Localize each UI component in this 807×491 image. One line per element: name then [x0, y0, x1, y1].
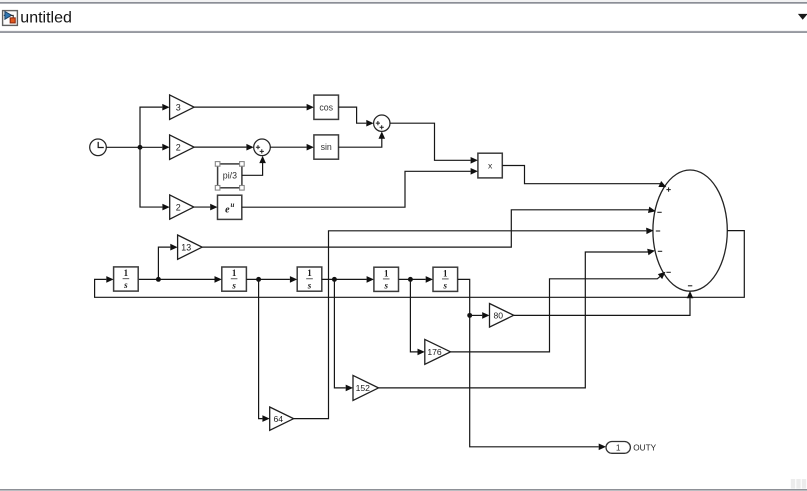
- svg-text:80: 80: [494, 311, 504, 321]
- wire cos to sum 2: [339, 107, 374, 126]
- wire gain 13 to ellipse port 2: [202, 207, 656, 248]
- model icon: [3, 11, 18, 26]
- gain block 176: [425, 339, 451, 364]
- svg-text:1: 1: [616, 443, 621, 453]
- tab bar background: [0, 0, 807, 33]
- wire branch to gain 80: [470, 312, 490, 319]
- wire integrator 5 to outport OUTY: [458, 279, 606, 450]
- wire gain 80 to ellipse bottom port: [514, 291, 694, 316]
- gain block 3: [170, 95, 195, 120]
- outport block 1: [606, 442, 630, 454]
- wire branch integrator 2 to gain 64: [259, 279, 270, 422]
- status bar bottom line: [0, 489, 807, 491]
- wire sin to sum 2 bottom: [339, 131, 386, 147]
- svg-text:cos: cos: [319, 102, 333, 112]
- svg-text:s: s: [123, 280, 128, 290]
- wire integrator 1 to integrator 2: [139, 276, 222, 283]
- svg-text:2: 2: [176, 142, 181, 152]
- svg-text:176: 176: [427, 347, 442, 357]
- wire branch to gain 2 middle: [140, 144, 170, 151]
- large sum block (ellipse): [653, 170, 727, 291]
- outport label OUTY: [633, 443, 656, 452]
- wire sum 1 to sin: [270, 144, 314, 151]
- sum block 1: [254, 139, 271, 156]
- svg-text:s: s: [307, 280, 312, 290]
- svg-text:OUTY: OUTY: [633, 443, 656, 452]
- wire branch integrator 4 to gain 176: [410, 279, 424, 355]
- integrator block 1/s #3: [297, 267, 322, 291]
- scrollbar grip squares: [791, 479, 806, 489]
- wire gain 2 to sum 1: [194, 144, 254, 151]
- svg-text:152: 152: [356, 383, 371, 393]
- integrator block 1/s #5: [433, 267, 458, 291]
- wire gain 3 to cos: [194, 104, 314, 111]
- selection handles of pi/3: [215, 162, 244, 191]
- wire ellipse output feedback to integrator 1: [95, 231, 745, 298]
- svg-text:3: 3: [176, 102, 181, 112]
- svg-text:s: s: [231, 280, 236, 290]
- clock block: [90, 139, 107, 156]
- svg-text:2: 2: [176, 202, 181, 212]
- svg-text:sin: sin: [321, 142, 332, 152]
- wire integrator 2 to integrator 3: [246, 276, 297, 283]
- wire clock output to branch node: [106, 146, 140, 148]
- gain block 2 (lower): [170, 195, 194, 219]
- junction node at clock branch: [138, 145, 143, 150]
- junction node after integrator 3: [332, 277, 337, 282]
- wire integrator 4 to integrator 5: [399, 276, 433, 283]
- integrator block 1/s #1: [114, 267, 139, 291]
- gain block 2 (middle): [170, 135, 195, 160]
- junction node on OUTY wire at gain 80 branch: [467, 313, 472, 318]
- gain block 152: [353, 375, 379, 400]
- gain block 64: [270, 407, 294, 430]
- sum block 2: [374, 115, 390, 131]
- wire gain 152 to ellipse port 4: [379, 247, 656, 388]
- wire gain 64 to ellipse port 3: [294, 227, 654, 418]
- svg-text:s: s: [383, 281, 388, 291]
- gain block 80: [490, 304, 514, 328]
- wire integrator 1 branch to gain 13: [158, 244, 177, 280]
- svg-text:1: 1: [232, 268, 237, 278]
- wire branch integrator 3 to gain 152: [334, 279, 353, 391]
- wire branch down to gain 2 lower: [140, 147, 170, 210]
- integrator block 1/s #4: [374, 267, 399, 291]
- wire e^u to product input 2: [242, 168, 478, 207]
- wire product to ellipse port 1: [502, 166, 667, 191]
- wire gain 176 to ellipse port 5: [451, 269, 668, 352]
- trigonometry block cos: [314, 95, 339, 119]
- tab title untitled: [20, 10, 72, 27]
- junction node after integrator 1: [156, 277, 161, 282]
- svg-text:1: 1: [307, 268, 312, 278]
- svg-text:pi/3: pi/3: [223, 171, 237, 181]
- svg-text:untitled: untitled: [20, 10, 72, 27]
- svg-text:1: 1: [443, 268, 448, 278]
- junction node after integrator 4: [408, 277, 413, 282]
- wire gain 2 lower to e^u: [194, 204, 218, 211]
- wire branch up to gain 3: [140, 104, 170, 147]
- svg-text:u: u: [231, 201, 235, 209]
- integrator block 1/s #2: [222, 267, 247, 291]
- gain block 13: [178, 235, 203, 259]
- trigonometry block sin: [314, 135, 339, 159]
- svg-text:s: s: [443, 281, 448, 291]
- product block x: [478, 153, 502, 178]
- svg-text:x: x: [488, 161, 493, 171]
- constant block pi/3 (selected): [218, 164, 242, 188]
- math function block e^u: [218, 195, 242, 219]
- dropdown arrow: [798, 14, 807, 20]
- svg-text:1: 1: [384, 268, 389, 278]
- svg-text:e: e: [225, 204, 230, 215]
- wire integrator 3 to integrator 4: [322, 276, 374, 283]
- wire sum 2 to product input 1: [390, 123, 478, 163]
- svg-text:64: 64: [274, 414, 284, 424]
- svg-text:1: 1: [124, 268, 129, 278]
- svg-text:13: 13: [181, 242, 191, 252]
- wire pi/3 to sum 1 bottom: [242, 156, 266, 176]
- junction node after integrator 2: [256, 277, 261, 282]
